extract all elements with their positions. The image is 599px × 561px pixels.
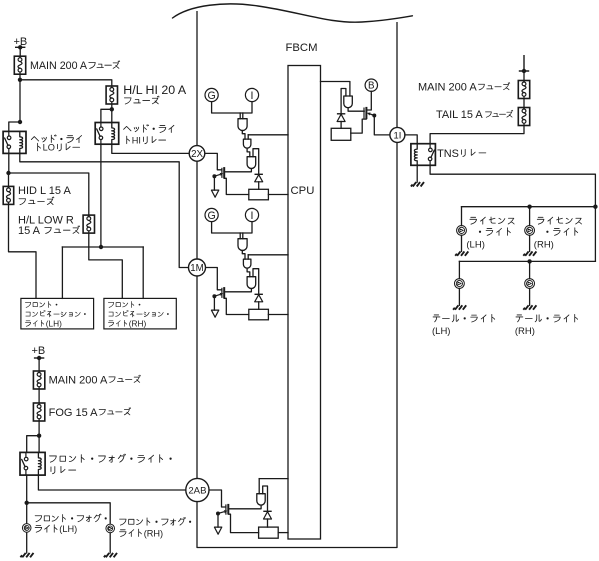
node 1M [189,259,206,276]
wire to H/L HI fuse [20,80,112,86]
wire [38,389,40,403]
wire gate to diode [263,486,268,511]
lamp tail light (LH) [455,279,465,289]
terminal bar +B [15,45,25,49]
svg-text:G: G [207,90,215,102]
MOSFET driver (fog block) [218,504,228,515]
svg-text:HID L 15 A: HID L 15 A [18,185,71,197]
wire gate3 output to FET drain [224,289,251,292]
wire [247,268,250,277]
wire gate3 to diode [253,149,259,175]
label TNSリレー [437,148,486,160]
logic gate 3 (headlight LO block) [247,277,256,289]
junction [593,205,597,209]
sense resistor (fog block) [259,527,279,538]
wire [529,288,531,305]
node 2X [189,146,205,162]
flyback diode (TNS block) [337,114,345,122]
wire resistor to CPU (headlight HI block) [268,194,288,196]
junction [110,107,114,111]
fuse MAIN 200 A (right) [518,81,529,99]
wire to combination lights [62,246,143,248]
wire [38,421,40,452]
svg-text:15 A: 15 A [18,225,41,237]
svg-text:B: B [368,81,375,92]
wire gate output to FET drain [228,505,261,509]
wire [213,296,215,310]
pin I (headlight LO block) [245,208,258,221]
svg-text:2AB: 2AB [188,486,206,497]
junction [212,294,216,298]
wire [247,255,249,259]
wire [258,479,260,494]
output arrow to load (fog block) [214,527,221,534]
label FOG 15 Aフューズ [49,407,131,419]
wire [242,131,245,140]
wire to fog light RH [27,503,111,523]
label TAIL 15 Aフューズ [436,109,513,121]
label フロント・フォグ・ライト・リレー [50,454,172,462]
wire [458,288,460,305]
IC CPU [288,66,321,540]
wire [61,247,63,298]
wire [258,182,260,190]
wire [267,519,269,527]
fuse H/L HI 20 A [106,86,117,104]
wire FET source to node 1I [374,116,390,135]
label MAIN 200 Aフューズ (right) [418,82,510,94]
wire TNS relay switch output [430,165,595,261]
wire [19,74,21,122]
label フロント・フォグ・ライト(LH) [35,514,106,522]
sense resistor (TNS block) [331,128,351,140]
wire gate output to FET gate [348,108,364,111]
ground (tail LH) [453,305,466,309]
pin G (headlight LO block) [205,208,218,221]
wire to H/L LOW R fuse [9,173,89,215]
lamp license light (RH) [525,226,535,236]
junction [527,205,531,209]
wire [242,233,244,239]
label ヘッド・ライトHIリレー [124,125,174,133]
wire resistor to CPU (headlight LO block) [268,314,288,316]
svg-text:(RH): (RH) [129,319,147,329]
wire [247,148,250,157]
label テール・ライト(RH) [516,314,578,322]
wire node 2AB to FET gate [209,490,226,507]
relay front fog light (フロント・フォグ・ライト・リレー) [20,452,45,475]
junction [216,512,220,516]
logic gate 2 (headlight HI block) [243,139,251,148]
MOSFET driver (headlight LO block) [214,287,224,298]
svg-text:MAIN 200 A: MAIN 200 A [418,82,477,94]
logic gate (fog block) [257,494,265,505]
wire [239,233,241,239]
wire to CPU (headlight HI block) [248,134,288,136]
logic gate 1 (headlight HI block) [238,119,247,131]
wire FET source to sense resistor [228,514,258,532]
fuse TAIL 15 A [518,108,529,126]
svg-text:I: I [251,90,254,102]
label MAIN 200 Aフューズ [30,60,120,72]
fuse HID L 15 A [3,186,14,204]
load box front combination light (LH) [21,298,94,329]
svg-text:(LH): (LH) [466,240,484,251]
svg-text:(RH): (RH) [144,528,163,538]
wire [529,235,531,251]
svg-text:I: I [251,210,254,222]
wire node 2X to FET gate [205,153,222,169]
label ライセンス・ライト(RH) [537,217,581,224]
wire FET source to sense resistor [224,298,249,314]
wire G/I input bus (headlight LO block) [212,222,252,233]
wire TAIL fuse to TNS relay [430,126,524,144]
svg-text:HI: HI [132,135,141,145]
flyback diode (headlight LO block) [255,294,263,302]
wire node 1M to FET gate [206,268,222,290]
logic gate (TNS block) [344,96,353,108]
wire [523,71,525,81]
wire [101,109,112,122]
ground (license RH) [523,251,536,255]
junction [18,78,22,82]
wire G/I input bus (headlight HI block) [212,102,252,113]
wire B to FET drain [366,91,371,110]
svg-text:CPU: CPU [291,185,315,197]
svg-text:1I: 1I [393,129,401,140]
wire CPU to fog gate [259,478,288,480]
wire [523,99,525,108]
wire [142,247,144,298]
relay headlight LO (ヘッド・ライトLOリレー) [3,131,26,153]
wire to CPU (headlight LO block) [248,254,288,256]
wire [461,207,463,226]
wire [529,207,531,226]
ground (fog LH) [20,553,33,557]
junction [99,245,103,249]
pin I (headlight HI block) [245,88,258,101]
wire resistor to CPU [278,532,288,534]
wire [247,135,249,139]
fuse MAIN 200 A (left) [14,56,25,74]
wire [239,113,241,119]
terminal bar +B (fog) [34,356,44,360]
output arrow to load (headlight LO block) [211,310,218,317]
wire [109,533,111,553]
wire CPU to TNS gate [321,82,350,97]
svg-text:(RH): (RH) [515,326,535,337]
label フロント・コンビネーション・ライト(RH) [108,301,140,307]
svg-text:FBCM: FBCM [286,42,318,54]
label FBCM [286,42,318,54]
FBCM module box (torn top edge) [173,4,413,548]
node 1I [390,127,405,142]
lamp front fog light (RH) [106,524,115,533]
label H/L LOW R 15 A フューズ [18,214,74,226]
svg-text:+B: +B [32,345,46,357]
wire TNS coil to ground [416,165,418,182]
svg-text:FOG 15 A: FOG 15 A [49,407,99,419]
svg-text:(LH): (LH) [59,524,77,534]
wire [27,436,39,453]
logic gate 3 (headlight HI block) [247,157,256,169]
lamp license light (LH) [457,226,467,236]
fuse FOG 15 A [33,403,44,421]
wire [111,104,113,123]
wire [217,514,219,528]
terminal bar (battery feed, right) [519,55,529,73]
wire HID fuse to combination light LH [9,204,37,298]
net +B (fog feed) [32,345,46,357]
node 2AB [186,478,209,501]
label H/L HI 20 A フューズ [123,83,187,97]
svg-text:MAIN 200 A: MAIN 200 A [49,374,108,386]
lamp front fog light (LH) [22,524,31,533]
wire fog relay switch down [26,475,28,503]
svg-text:TNS: TNS [437,148,459,160]
flyback diode (fog block) [263,511,271,519]
relay TNS (TNSリレー) [411,144,436,166]
wire [258,302,260,310]
wire gate to diode [341,89,346,114]
MOSFET driver (TNS block) [364,107,374,119]
wire [242,251,245,260]
wire gate3 output to FET drain [224,169,251,172]
ground (TNS relay) [411,182,424,186]
fuse H/L LOW R 15 A [83,215,94,233]
logic gate 1 (headlight LO block) [238,239,247,251]
wire [461,235,463,251]
wire license light feed [462,206,596,208]
svg-text:MAIN 200 A: MAIN 200 A [30,60,88,72]
wire LOW R fuse to combination light RH [89,233,123,298]
wire [38,358,40,371]
relay headlight HI (ヘッド・ライトHIリレー) [95,123,119,145]
wire [340,122,342,129]
junction [6,171,10,175]
fuse MAIN 200 A (fog feed) [33,371,44,389]
svg-text:H/L HI 20 A: H/L HI 20 A [123,83,187,97]
svg-text:LO: LO [43,143,55,153]
wire HI relay switch down [100,144,102,247]
ground (tail RH) [523,305,536,309]
label フロント・フォグ・ライト(RH) [120,517,191,525]
svg-text:(LH): (LH) [432,326,450,337]
svg-text:(RH): (RH) [534,240,554,251]
load box front combination light (RH) [104,298,176,329]
net +B (headlamp feed) [14,36,28,48]
wire [529,261,531,278]
wire LO relay switch down [8,153,10,173]
wire gate3 to diode [253,269,259,295]
junction [527,259,531,263]
junction [25,501,29,505]
label フロント・コンビネーション・ライト(LH) [25,301,57,307]
pin G (headlight HI block) [205,88,218,101]
svg-text:(LH): (LH) [46,319,62,329]
junction [18,120,22,124]
wire FET source to sense resistor [351,119,366,133]
wire LO relay coil to node 1M [20,153,188,267]
svg-text:1M: 1M [190,263,203,274]
wire fog relay coil to node 2AB [38,475,185,490]
svg-text:G: G [207,210,215,222]
wire [8,173,10,186]
wire [242,113,244,119]
wire [26,533,28,553]
logic gate 2 (headlight LO block) [243,259,251,268]
wire to fog light LH [26,503,28,523]
label HID L 15 A フューズ [18,185,71,197]
wire [213,176,215,190]
sense resistor (headlight LO block) [249,309,269,320]
ground (license LH) [455,251,468,255]
label ヘッド・ライトLOリレー [31,135,81,143]
label ライセンス・ライト(LH) [470,217,514,224]
junction [212,174,216,178]
pin B (battery) [365,79,377,92]
flyback diode (headlight HI block) [255,174,263,182]
wire tail light feed [459,260,595,262]
output arrow to load (headlight HI block) [211,190,218,197]
label テール・ライト(LH) [433,314,495,322]
svg-text:2X: 2X [191,149,203,160]
wire [19,47,21,56]
label MAIN 200 Aフューズ (fog) [49,374,141,386]
lamp tail light (RH) [525,279,535,289]
junction [37,434,41,438]
svg-text:TAIL 15 A: TAIL 15 A [436,109,483,121]
wire FET source to sense resistor [224,178,249,194]
sense resistor (headlight HI block) [249,189,269,200]
wire node 1I to TNS relay coil [405,135,417,144]
MOSFET driver (headlight HI block) [214,167,224,178]
ground (fog RH) [104,553,117,557]
wire [458,261,460,278]
wire HI relay coil to node 2X [112,144,189,153]
wire [9,122,20,131]
junction [372,114,376,118]
